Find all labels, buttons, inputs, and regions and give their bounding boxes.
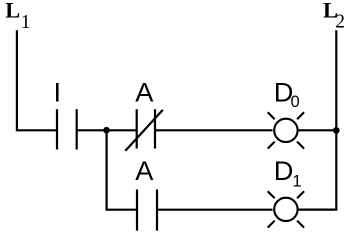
svg-text:1: 1 [292, 171, 301, 190]
svg-text:1: 1 [21, 11, 31, 33]
contact A (normally-closed) [125, 109, 163, 151]
lamp D0 [268, 112, 304, 148]
junction node [103, 127, 110, 134]
contact A branch (normally-open) [137, 190, 157, 231]
right power rail L2 with wire to lamp D1 [298, 30, 336, 209]
branch wire down to rung 2 [107, 130, 137, 209]
svg-text:I: I [54, 77, 62, 108]
svg-text:0: 0 [291, 92, 300, 111]
svg-text:2: 2 [335, 11, 345, 32]
wire lamp D0 to right rail [298, 129, 336, 131]
svg-text:A: A [135, 155, 154, 186]
left power rail L1 with wire to contact I [17, 30, 57, 130]
svg-text:L: L [5, 0, 20, 23]
junction node on right rail [333, 127, 340, 134]
lamp D1 [268, 191, 304, 227]
wire contact A to lamp D0 [155, 129, 273, 131]
wire contact A to lamp D1 [157, 209, 273, 211]
contact I (normally-open) [57, 109, 77, 149]
svg-text:A: A [135, 77, 154, 108]
svg-text:D: D [274, 155, 294, 186]
wire contact I to contact A [77, 129, 137, 131]
